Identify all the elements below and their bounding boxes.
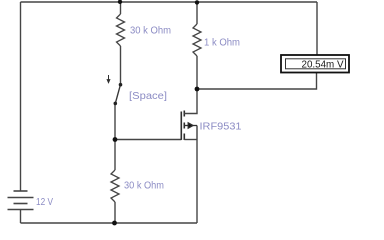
node bottom rail / R2 [112, 221, 117, 226]
resistor R3 1k [193, 24, 201, 56]
node source (1k bottom / voltmeter / MOSFET) [195, 87, 200, 92]
switch S1 blade [115, 85, 120, 104]
resistor R1 30k (top) [117, 14, 125, 46]
battery V1 plate short [14, 203, 28, 205]
wire switch bottom to gate node [114, 104, 116, 140]
wire 1k bottom to source node [196, 56, 198, 89]
voltmeter U1 outer box [281, 55, 349, 73]
svg-text:30 k Ohm: 30 k Ohm [130, 26, 171, 37]
svg-text:20.54m V: 20.54m V [302, 59, 344, 71]
voltmeter U1 inner box [286, 59, 346, 69]
battery V1 plate short top [14, 190, 28, 192]
wire R1 branch top [120, 2, 122, 14]
wire 1k branch top [196, 2, 198, 24]
svg-text:1 k Ohm: 1 k Ohm [204, 38, 240, 49]
resistor R2 30k (bottom) [111, 170, 119, 202]
transistor Q1 top lead [184, 89, 197, 114]
transistor Q1 bottom lead [184, 139, 197, 141]
wire voltmeter drop from top rail [316, 2, 318, 55]
svg-text:IRF9531: IRF9531 [200, 122, 242, 133]
wire left vertical from top rail to battery + [20, 2, 22, 191]
transistor Q1 IRF9531 gate bar [180, 112, 182, 140]
wire MOSFET drain down to bottom rail [196, 140, 198, 224]
battery V1 plate long bottom [8, 209, 34, 211]
transistor Q1 channel tick middle [183, 123, 185, 129]
wire top rail [21, 1, 318, 3]
wire bottom rail [21, 222, 198, 224]
svg-text:[Space]: [Space] [129, 91, 167, 102]
switch S1 bottom contact [114, 102, 118, 106]
wire below voltmeter to source node [197, 73, 317, 90]
switch key arrow [107, 75, 110, 83]
node gate (switch / R2 / gate wire) [113, 137, 118, 142]
wire gate node to R2 top [114, 140, 116, 171]
transistor Q1 body arrow [184, 123, 197, 140]
switch S1 top contact [119, 83, 123, 87]
wire R1 bottom to switch top [120, 46, 122, 85]
wire battery bottom stub [20, 210, 22, 224]
battery V1 plate long [8, 197, 34, 199]
svg-text:30 k Ohm: 30 k Ohm [124, 181, 164, 192]
transistor Q1 channel tick top [183, 111, 185, 117]
wire gate node to MOSFET gate [115, 139, 181, 141]
node top rail / R1 branch [118, 0, 122, 4]
node top rail / 1k branch [195, 0, 199, 4]
svg-text:12 V: 12 V [36, 197, 53, 208]
wire R2 bottom to ground rail [114, 202, 116, 223]
transistor Q1 channel tick bottom [183, 134, 185, 141]
